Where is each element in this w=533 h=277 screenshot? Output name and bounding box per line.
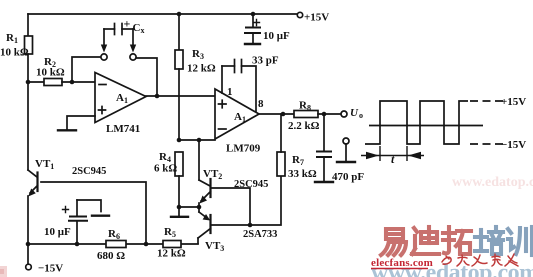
op-amp U1 LM741 triangle — [95, 73, 146, 123]
wire feedback to Cx right terminal — [136, 58, 157, 96]
node VT1 base bottom — [144, 242, 149, 247]
capacitor 10uF trigger — [69, 200, 87, 244]
ground LM741 plus input — [58, 129, 76, 131]
wire R4 bottom — [178, 176, 180, 207]
probe terminal circle — [343, 138, 349, 144]
label t — [391, 152, 395, 166]
wire LM741 output — [146, 95, 215, 97]
label R5 — [157, 226, 186, 260]
svg-text:www.edatop.com: www.edatop.com — [452, 175, 533, 190]
label +15V — [304, 12, 329, 24]
svg-text:−15V: −15V — [38, 263, 63, 275]
resistor R6 — [106, 241, 126, 248]
svg-text:2SA733: 2SA733 — [243, 229, 277, 240]
label A1 LM709 — [226, 111, 261, 155]
ground 10uF supply — [245, 43, 260, 45]
waveform diagram — [361, 101, 503, 161]
svg-text:LM741: LM741 — [106, 123, 140, 135]
wire rail R2node to VT1 — [27, 82, 29, 170]
char xun — [508, 227, 532, 255]
label waveform +15V — [501, 96, 526, 108]
label VT3 — [205, 229, 277, 253]
svg-text:6 kΩ: 6 kΩ — [154, 163, 177, 175]
wire top rail — [28, 13, 297, 15]
waveform period ticks — [380, 146, 407, 161]
label R8 — [288, 100, 320, 133]
node base junction — [248, 223, 253, 228]
svg-text:12 kΩ: 12 kΩ — [157, 248, 186, 260]
wire R3 bottom to minus node — [178, 69, 180, 140]
label A1 LM741 — [106, 92, 140, 135]
svg-text:+: + — [124, 17, 131, 31]
wire R1 to R2 node — [27, 54, 29, 82]
waveform bottom dashes — [470, 143, 503, 145]
svg-text:8: 8 — [258, 98, 264, 110]
waveform square wave — [365, 101, 468, 144]
capacitor 10uF supply — [245, 14, 260, 43]
svg-text:+15V: +15V — [501, 96, 526, 108]
label Uo — [350, 107, 363, 120]
watermark faint pink — [452, 175, 533, 190]
svg-text:elecfans.com: elecfans.com — [371, 257, 433, 269]
terminal Uo — [341, 111, 347, 117]
label VT1 — [35, 158, 106, 177]
watermark big blue www.edatop.com — [371, 260, 533, 277]
label 10uF supply — [263, 30, 290, 42]
node R7 top junction — [281, 112, 286, 117]
label waveform -15V — [501, 139, 526, 151]
wire VT2 base — [211, 188, 250, 225]
node 10uF top junction — [251, 12, 256, 17]
svg-text:2SC945: 2SC945 — [234, 179, 268, 190]
svg-text:1: 1 — [227, 86, 233, 98]
svg-text:10 kΩ: 10 kΩ — [36, 67, 65, 79]
capacitor Cx — [104, 24, 133, 35]
wire VT1 emitter down — [27, 196, 29, 264]
switch contact plate — [92, 214, 109, 216]
script red signature dianzifashaoyou — [442, 254, 518, 266]
LM709 minus input sign — [219, 128, 227, 130]
svg-text:2SC945: 2SC945 — [72, 166, 106, 177]
node R3 top junction — [177, 12, 182, 17]
transistor Q1 VT1 — [28, 170, 38, 197]
10uF trigger plus sign — [63, 207, 69, 213]
char yi — [381, 229, 406, 255]
resistor R3 — [175, 50, 183, 69]
label Cx — [124, 17, 145, 36]
label R1 — [0, 32, 29, 59]
label VT2 — [203, 168, 268, 190]
Cx right probe arrow — [130, 29, 136, 53]
label R4 — [154, 151, 177, 175]
LM741 minus input sign — [99, 84, 106, 86]
Cx left probe arrow — [101, 29, 107, 53]
wire VT2 collector riser — [198, 140, 200, 180]
label 470pF — [332, 171, 364, 183]
wire emitter link — [179, 206, 199, 208]
svg-text:−15V: −15V — [501, 139, 526, 151]
svg-text:U: U — [350, 107, 359, 119]
ground under R4 — [171, 207, 188, 217]
svg-text:10 μF: 10 μF — [44, 226, 71, 238]
wire R8 right — [318, 113, 341, 115]
node 10uF bottom — [75, 242, 80, 247]
wire R3 top — [178, 14, 180, 50]
label -15V — [38, 263, 63, 275]
transistor Q3 VT3 — [198, 207, 211, 244]
wire LM709 minus input — [179, 139, 215, 141]
capacitor C 33pF feedback — [222, 60, 256, 112]
ground 470pF — [315, 181, 333, 183]
resistor R2 — [28, 79, 95, 86]
wire LM741 plus input — [67, 116, 95, 129]
svg-text:470 pF: 470 pF — [332, 171, 364, 183]
label R3 — [187, 48, 216, 75]
waveform top dashes — [470, 100, 503, 102]
wire LM709 pin1 — [221, 66, 223, 93]
svg-text:33 kΩ: 33 kΩ — [288, 168, 317, 180]
wire left rail upper — [27, 14, 29, 36]
label elecfans.com — [371, 257, 433, 269]
transistor Q2 VT2 — [199, 179, 211, 207]
label 33pF — [252, 55, 279, 67]
probe ground — [337, 144, 355, 162]
LM741 plus input sign — [99, 107, 106, 114]
svg-text:680 Ω: 680 Ω — [97, 250, 125, 262]
waveform axis — [369, 125, 483, 127]
svg-text:LM709: LM709 — [226, 143, 261, 155]
+15V terminal — [297, 12, 302, 17]
label R2 — [36, 56, 65, 79]
resistor R7 — [277, 152, 285, 176]
node LM741 output junction — [155, 94, 160, 99]
node emitters junction — [197, 205, 202, 210]
char tuo — [443, 227, 471, 254]
svg-text:33 pF: 33 pF — [252, 55, 279, 67]
wire bottom rail — [28, 243, 198, 245]
node bottom left — [26, 242, 31, 247]
resistor R1 — [25, 36, 33, 54]
wire LM709 output — [259, 113, 294, 115]
op-amp U2 LM709 triangle — [215, 89, 259, 139]
label R6 — [97, 228, 125, 262]
label R7 — [288, 154, 317, 180]
10uF plus sign — [254, 20, 260, 26]
wire VT3 base to R7 — [211, 176, 281, 225]
node R3-R4 minus junction — [177, 138, 182, 143]
node VT2 collector junction — [197, 138, 202, 143]
char pei — [475, 227, 503, 254]
svg-text:10 μF: 10 μF — [263, 30, 290, 42]
watermark CJK red 易迪拓培训 — [381, 227, 532, 255]
svg-text:12 kΩ: 12 kΩ — [187, 63, 216, 75]
svg-text:2.2 kΩ: 2.2 kΩ — [288, 120, 320, 132]
Cx right terminal circle — [130, 54, 136, 60]
svg-text:+15V: +15V — [304, 12, 329, 24]
Cx left terminal circle — [101, 54, 107, 60]
resistor R5 — [163, 241, 181, 248]
wire R7 top — [280, 114, 282, 152]
label 10uF trigger — [44, 226, 71, 238]
corner smudge — [0, 266, 7, 277]
switch contact wire — [77, 200, 101, 212]
node 470pF junction — [322, 112, 327, 117]
capacitor 470pF — [317, 114, 331, 181]
terminal -15V — [26, 264, 32, 270]
node R2 right — [70, 80, 75, 85]
resistor R8 — [294, 111, 318, 118]
svg-text:10 kΩ: 10 kΩ — [0, 47, 29, 59]
wire VT1 base — [41, 182, 146, 244]
node R2 left — [26, 80, 31, 85]
label 1 and 8 pins — [227, 86, 264, 110]
node emitter junction left — [177, 205, 182, 210]
char di — [412, 227, 439, 254]
wire to Cx left terminal — [72, 57, 101, 82]
resistor R4 — [175, 152, 183, 176]
waveform dimension arrows — [361, 152, 424, 159]
LM709 plus input sign — [219, 100, 227, 108]
svg-text:o: o — [359, 111, 363, 120]
